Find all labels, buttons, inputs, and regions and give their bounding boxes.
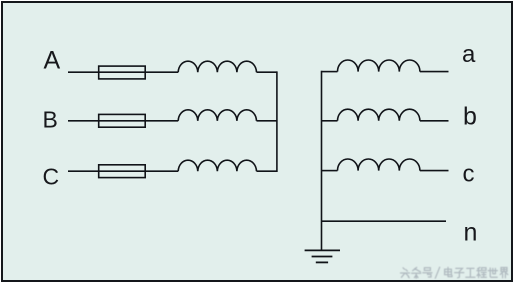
wire b output [420,120,449,122]
char 条 [412,267,421,278]
wire a bus-to-winding [322,71,338,73]
wire B fuse-to-winding [145,120,178,122]
fuse FU2 (phase B) [99,114,146,127]
ground [305,250,340,262]
wire A input [68,71,99,73]
wire A fuse-to-winding [145,71,178,73]
wire C input [68,170,99,172]
watermark "头条号 / 电子工程世界" drawn as light-gray strokes [401,267,508,278]
char 号 [423,268,432,277]
wire: primary neutral bus [276,71,278,172]
wire C fuse-to-winding [145,170,178,172]
fuse FU1 (phase A) [99,66,146,79]
char 头 [401,268,410,278]
svg-text:n: n [464,219,478,247]
wire n (neutral output) [322,220,447,222]
svg-text:a: a [462,41,476,68]
secondary winding (phase a) [338,60,420,72]
primary winding (phase B) [178,110,256,121]
wire a output [420,71,449,73]
node b [463,103,477,131]
node a [462,41,476,68]
node n [464,219,478,247]
svg-text:c: c [463,161,475,188]
slash [435,267,439,278]
svg-text:A: A [44,47,61,75]
primary winding (phase A) [178,61,256,72]
wire b bus-to-winding [322,120,338,122]
svg-text:C: C [43,164,60,190]
svg-text:b: b [463,103,477,131]
primary winding (phase C) [178,160,256,171]
char 电 [445,267,452,276]
char 工 [466,268,475,277]
node c [463,161,475,188]
wire c output [420,170,449,172]
wire B input [68,120,99,122]
wire: secondary neutral bus [321,71,323,251]
char 程 [477,267,487,277]
char 界 [500,268,508,278]
svg-text:B: B [43,107,58,133]
wire B winding-to-bus [257,120,277,122]
wire C winding-to-bus [257,170,277,172]
node A [44,47,61,75]
char 子 [455,268,464,277]
node C [43,164,60,190]
wire c bus-to-winding [322,170,338,172]
node B [43,107,58,133]
secondary winding (phase b) [338,109,420,121]
fuse FU3 (phase C) [99,165,146,178]
wire A winding-to-bus [257,71,277,73]
secondary winding (phase c) [338,159,420,171]
char 世 [488,268,497,277]
